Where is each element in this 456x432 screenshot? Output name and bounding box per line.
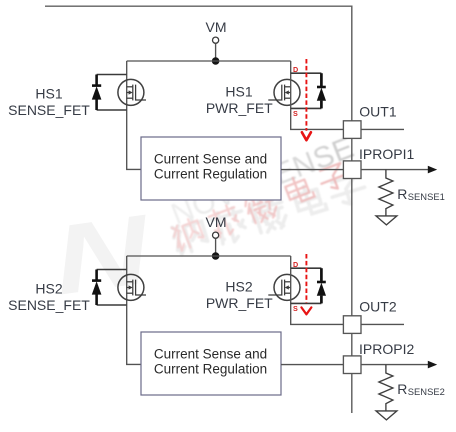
wire HS1 SENSE_FET drain-source vertical, into current-sense box	[127, 61, 141, 169]
svg-text:R: R	[397, 381, 407, 397]
junction VM node dot (section HS1)	[212, 57, 220, 65]
pin label S source (section HS2)	[293, 304, 298, 313]
wire HS1 PWR_FET body-diode anode stub	[291, 107, 322, 109]
resistor R_SENSE1	[379, 170, 393, 216]
svg-text:Current Regulation: Current Regulation	[154, 167, 267, 182]
block current sense and regulation box (section HS2)	[141, 332, 281, 395]
wire HS1 PWR_FET body-diode cathode stub	[291, 72, 322, 74]
svg-text:Current Sense and: Current Sense and	[154, 347, 267, 362]
value label HS2 SENSE_FET name	[8, 280, 90, 313]
block current sense and regulation box (section HS1)	[141, 137, 281, 200]
transistor HS1 PWR_FET internal symbol	[268, 85, 290, 101]
wire HS2 PWR_FET body-diode cathode stub	[291, 267, 322, 269]
transistor HS2 PWR_FET internal symbol	[268, 280, 290, 296]
wire HS1 SENSE_FET body-diode anode stub	[97, 109, 127, 111]
value label R_SENSE1	[397, 186, 445, 202]
svg-text:HS1: HS1	[225, 84, 252, 100]
value label HS1 PWR_FET name	[206, 84, 273, 116]
pin label D drain (section HS2)	[293, 260, 298, 269]
svg-text:D: D	[293, 260, 298, 269]
value label HS2 PWR_FET name	[206, 279, 273, 311]
svg-text:VM: VM	[206, 214, 227, 230]
junction VM node dot (section HS2)	[212, 252, 220, 260]
wire VM top supply rail	[45, 6, 352, 413]
wire OUT2 to the right	[361, 323, 404, 325]
terminal IPROPI2 square pad	[343, 356, 361, 374]
value label R_SENSE2	[397, 381, 445, 397]
wire HS1 PWR_FET source down and to OUT1 terminal	[291, 61, 344, 129]
svg-text:PWR_FET: PWR_FET	[206, 100, 273, 116]
ground arrow below R_SENSE1	[376, 216, 397, 225]
transistor HS1 SENSE_FET (circle body)	[118, 79, 144, 105]
wire red dashed current path D to S (section HS1)	[302, 59, 311, 140]
watermark text NOVOSENSE	[167, 131, 359, 231]
watermark logo N	[47, 195, 158, 316]
net label IPROPI2	[359, 341, 414, 357]
wire VM rail from SENSE_FET drain to PWR_FET drain (section HS1)	[127, 60, 291, 62]
ground arrow below R_SENSE2	[376, 411, 397, 420]
resistor R_SENSE2	[379, 365, 393, 411]
wire OUT1 to the right	[361, 128, 404, 130]
wire VM rail from SENSE_FET drain to PWR_FET drain (section HS2)	[127, 255, 291, 257]
pin label S source (section HS1)	[293, 109, 298, 118]
wire VM stub down to node (section HS2)	[215, 238, 217, 256]
terminal VM open circle (section HS2)	[213, 232, 219, 238]
diode HS2 SENSE_FET body diode	[92, 270, 102, 306]
net label VM (section HS1)	[206, 19, 227, 35]
wire IPROPI2 from box to arrow	[281, 361, 437, 369]
svg-text:VM: VM	[206, 19, 227, 35]
svg-text:SENSE_FET: SENSE_FET	[8, 102, 90, 118]
svg-text:HS1: HS1	[35, 85, 62, 101]
svg-text:HS2: HS2	[225, 279, 252, 295]
wire HS1 SENSE_FET body-diode cathode stub	[97, 74, 127, 76]
wire HS2 PWR_FET source down and to OUT2 terminal	[291, 256, 344, 324]
svg-text:S: S	[293, 109, 298, 118]
watermark text chinese faint gray 纳芯微电子	[170, 174, 368, 256]
wire HS2 PWR_FET body-diode anode stub	[291, 302, 322, 304]
svg-text:SENSE1: SENSE1	[408, 191, 445, 202]
svg-text:D: D	[293, 65, 298, 74]
diode HS2 PWR_FET body diode	[317, 268, 326, 303]
transistor HS1 PWR_FET (circle body)	[274, 79, 300, 105]
transistor HS2 PWR_FET (circle body)	[274, 274, 300, 300]
svg-text:S: S	[293, 304, 298, 313]
net label OUT2	[359, 299, 397, 315]
svg-text:OUT2: OUT2	[359, 299, 397, 315]
svg-text:Current Regulation: Current Regulation	[154, 362, 267, 377]
svg-text:IPROPI2: IPROPI2	[359, 341, 414, 357]
wire HS2 SENSE_FET body-diode cathode stub	[97, 269, 127, 271]
transistor HS1 SENSE_FET internal symbol	[127, 85, 146, 101]
svg-text:HS2: HS2	[35, 280, 62, 296]
diode HS1 PWR_FET body diode	[317, 73, 326, 108]
terminal IPROPI1 square pad	[343, 161, 361, 179]
svg-text:SENSE_FET: SENSE_FET	[8, 297, 90, 313]
transistor HS2 SENSE_FET (circle body)	[118, 274, 144, 300]
terminal OUT2 square pad	[343, 316, 361, 334]
svg-text:OUT1: OUT1	[359, 104, 397, 120]
svg-text:R: R	[397, 186, 407, 202]
watermark text chinese 纳芯微电子	[170, 161, 353, 251]
svg-text:IPROPI1: IPROPI1	[359, 146, 414, 162]
wire HS2 SENSE_FET drain-source vertical, into current-sense box	[127, 256, 141, 364]
wire VM stub down to node (section HS1)	[215, 43, 217, 61]
pin label D drain (section HS1)	[293, 65, 298, 74]
diode HS1 SENSE_FET body diode	[92, 75, 102, 111]
net label VM (section HS2)	[206, 214, 227, 230]
net label OUT1	[359, 104, 397, 120]
terminal OUT1 square pad	[343, 121, 361, 139]
wire HS2 SENSE_FET body-diode anode stub	[97, 304, 127, 306]
svg-text:PWR_FET: PWR_FET	[206, 295, 273, 311]
net label IPROPI1	[359, 146, 414, 162]
terminal VM open circle (section HS1)	[213, 37, 219, 43]
value label HS1 SENSE_FET name	[8, 85, 90, 118]
svg-text:Current Sense and: Current Sense and	[154, 152, 267, 167]
svg-text:SENSE2: SENSE2	[408, 386, 445, 397]
wire IPROPI1 from box to arrow	[281, 166, 437, 174]
wire red dashed current path D to S (section HS2)	[301, 254, 311, 314]
transistor HS2 SENSE_FET internal symbol	[127, 280, 146, 296]
